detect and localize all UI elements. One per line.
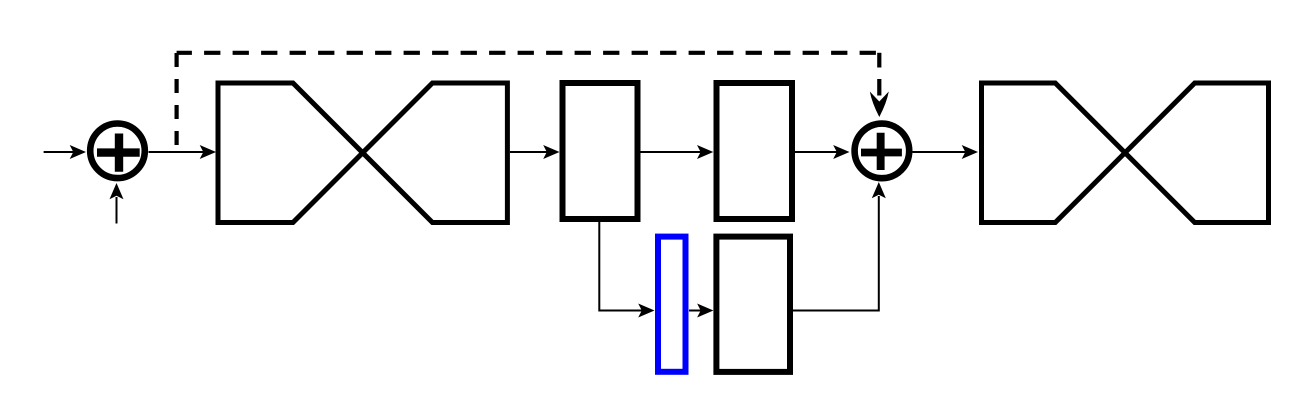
arrowhead into S2 left xyxy=(833,145,849,159)
wire B4 to block B5 xyxy=(689,310,701,312)
wire S2 output to block B6 xyxy=(913,151,967,153)
plus sign of S2 xyxy=(861,133,902,170)
dashed-path arrowhead into S2 top xyxy=(870,92,889,118)
arrowhead up into S2 bottom xyxy=(872,182,886,198)
block B5 rectangle xyxy=(716,237,790,372)
wire B1 to block B2 xyxy=(510,151,548,153)
arrowhead into block B2 xyxy=(543,145,559,159)
arrowhead into summer S1 xyxy=(70,145,86,159)
block B3 rectangle xyxy=(717,83,793,219)
summing junction S2 xyxy=(855,124,910,179)
wire up-arrow input below S1 xyxy=(116,197,118,224)
wire B3 to summer S2 xyxy=(795,151,838,153)
block B4 blue thin rectangle xyxy=(658,237,686,372)
plus sign of S1 xyxy=(97,134,140,172)
wire B5 right and up into summer S2 xyxy=(793,196,879,311)
arrowhead into block B3 xyxy=(697,145,713,159)
block B1 butterfly/crossover symbol xyxy=(218,83,507,223)
wire B2 to block B3 xyxy=(641,151,702,153)
dashed feedforward path descent dash 2 xyxy=(877,79,881,96)
dashed feedforward path vertical segment at node after S1 xyxy=(175,53,179,152)
wire input line into summer S1 xyxy=(44,151,75,153)
block B2 rectangle xyxy=(563,83,638,219)
wire S1 output to block B1 xyxy=(149,151,206,153)
arrowhead into blue block B4 xyxy=(638,304,654,318)
summing junction S1 xyxy=(90,124,145,179)
dashed feedforward path descent dash 1 xyxy=(877,53,881,68)
arrowhead up into S1 bottom xyxy=(110,183,124,199)
wire branch down from B2 output to blue block B4 xyxy=(599,222,643,311)
arrowhead into block B5 xyxy=(697,304,713,318)
arrowhead into block B6 xyxy=(962,145,978,159)
arrowhead into block B1 xyxy=(200,145,216,159)
dashed feedforward path horizontal segment along top xyxy=(177,51,880,55)
block B6 butterfly/crossover symbol xyxy=(982,83,1269,223)
